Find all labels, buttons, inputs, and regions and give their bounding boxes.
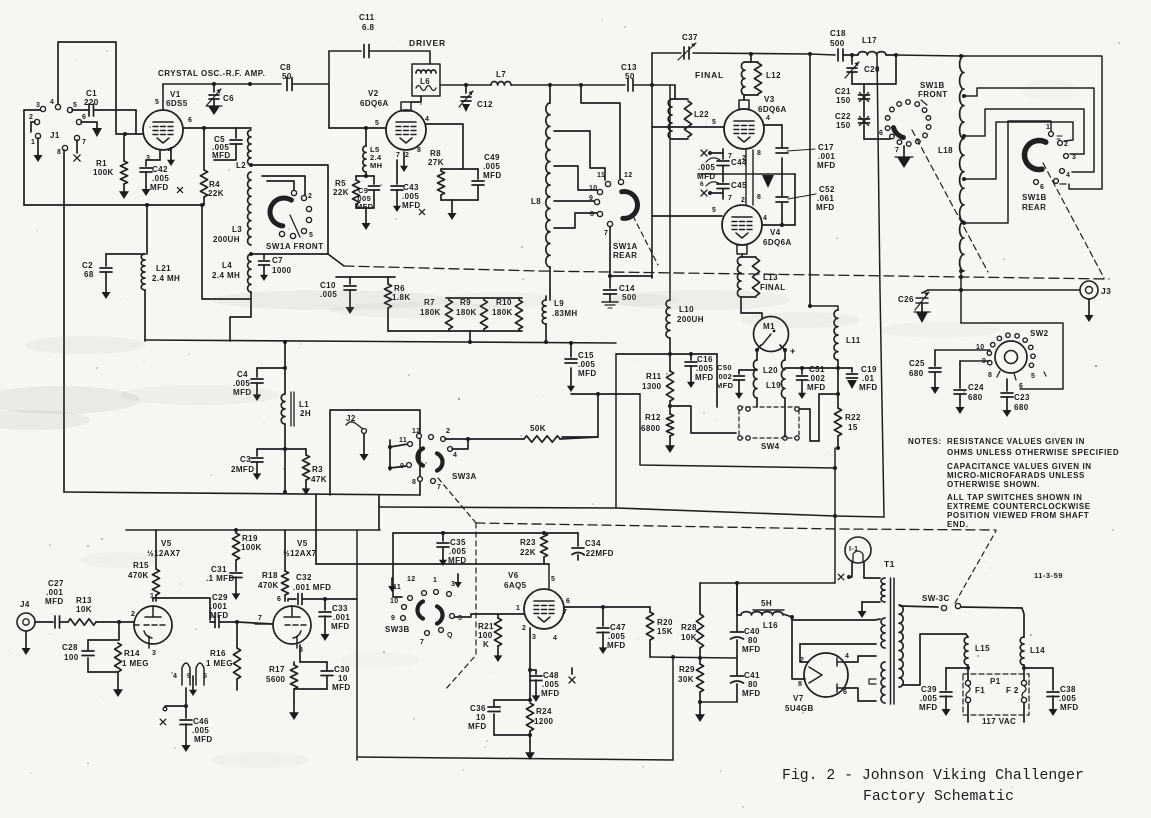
T1 HV winding bbox=[881, 662, 885, 703]
svg-text:R11: R11 bbox=[646, 372, 662, 381]
wire V1 cathode bbox=[159, 150, 161, 160]
resistor R28 bbox=[696, 583, 703, 658]
svg-text:11-3-59: 11-3-59 bbox=[1034, 571, 1063, 580]
capacitor C24 bbox=[954, 361, 966, 414]
tube V5b half 12AX7 bbox=[273, 606, 311, 648]
svg-text:680: 680 bbox=[1014, 403, 1029, 412]
label NOTES line7 bbox=[947, 502, 1091, 511]
node L18 tap1 bbox=[962, 94, 966, 98]
wire R11 tap to SW4 bbox=[670, 406, 736, 433]
label L16 bbox=[763, 621, 778, 630]
resistor R4 bbox=[200, 128, 207, 205]
label C44 .005MFD bbox=[697, 158, 747, 181]
wire L8 tap9 bbox=[554, 200, 594, 202]
wire x795 link bbox=[794, 174, 796, 225]
contact SW3B 9 bbox=[391, 615, 405, 622]
pin 2 V5a bbox=[131, 611, 135, 618]
pin 5 V6 bbox=[551, 576, 555, 583]
svg-text:V5: V5 bbox=[297, 539, 308, 548]
contact SW3A 2 bbox=[441, 428, 451, 441]
wire V2 screen lead bbox=[426, 124, 463, 169]
wire SW4 right link bbox=[799, 409, 819, 441]
node grid junction bbox=[123, 132, 127, 136]
inductor L6 coil bbox=[416, 70, 436, 91]
svg-text:I-1: I-1 bbox=[849, 546, 858, 553]
svg-text:C16: C16 bbox=[697, 355, 713, 364]
svg-text:MICRO-MICROFARADS UNLESS: MICRO-MICROFARADS UNLESS bbox=[947, 471, 1085, 480]
svg-text:5: 5 bbox=[712, 207, 716, 214]
svg-text:R21: R21 bbox=[478, 622, 494, 631]
label C40 80 MFD bbox=[742, 627, 761, 654]
label L4 2.4MH bbox=[212, 261, 240, 280]
svg-text:1200: 1200 bbox=[534, 717, 554, 726]
label T1 bbox=[884, 559, 895, 569]
caption line 2 bbox=[863, 789, 1014, 805]
svg-text:6800: 6800 bbox=[641, 424, 661, 433]
svg-text:C52: C52 bbox=[819, 185, 835, 194]
label L21 2.4MH bbox=[152, 264, 180, 283]
wire J1 pin8 down / left rail bbox=[63, 150, 65, 492]
svg-text:R23: R23 bbox=[520, 538, 536, 547]
svg-text:1 MEG: 1 MEG bbox=[122, 659, 149, 668]
svg-text:C26: C26 bbox=[898, 295, 914, 304]
svg-text:C33: C33 bbox=[332, 604, 348, 613]
inductor L3 bbox=[248, 172, 251, 245]
wire L17 to L18 bbox=[896, 55, 961, 56]
label C13 50 bbox=[621, 63, 637, 81]
svg-text:F 2: F 2 bbox=[1006, 686, 1019, 695]
wire C20 loop bbox=[852, 55, 896, 84]
svg-text:1: 1 bbox=[1046, 124, 1050, 131]
node C14 junction bbox=[608, 274, 612, 278]
svg-text:MFD: MFD bbox=[210, 611, 229, 620]
contact SW3A 9 bbox=[400, 463, 411, 470]
wire V6 output bbox=[565, 606, 650, 608]
wire left rail bottom bbox=[64, 492, 420, 495]
svg-text:.002: .002 bbox=[808, 374, 825, 383]
label SW4 bbox=[761, 442, 780, 451]
svg-text:V5: V5 bbox=[161, 539, 172, 548]
capacitor C44 bbox=[706, 149, 729, 166]
inductor L10 coil bbox=[666, 300, 670, 338]
svg-text:7: 7 bbox=[258, 615, 262, 622]
svg-text:C46: C46 bbox=[193, 717, 209, 726]
variable capacitor C6 bbox=[207, 84, 221, 106]
inductor L15 bbox=[964, 634, 968, 665]
wire L8 tap11 bbox=[554, 131, 605, 180]
capacitor C35 bbox=[437, 531, 449, 566]
label SW1B FRONT bbox=[918, 81, 948, 99]
tube V6 6AQ5 bbox=[524, 564, 564, 629]
svg-text:7: 7 bbox=[895, 147, 899, 154]
node C47 bbox=[601, 605, 605, 609]
ground C31 bbox=[232, 577, 241, 600]
svg-text:7: 7 bbox=[82, 139, 86, 146]
heater symbol pins 4 9 5 bbox=[182, 663, 204, 685]
svg-text:L11: L11 bbox=[846, 336, 861, 345]
wire long vertical x877 bbox=[877, 55, 884, 517]
resistor R22 bbox=[834, 408, 841, 436]
switch SW1B FRONT contacts bbox=[885, 100, 931, 147]
label L11 bbox=[846, 336, 861, 345]
label R11 1300 bbox=[642, 372, 662, 391]
contact SW1A-R 12 bbox=[618, 172, 632, 185]
caption line 1 bbox=[782, 768, 1084, 784]
svg-text:7: 7 bbox=[563, 609, 567, 616]
pin 1 V5a bbox=[150, 593, 154, 600]
lamp I-1 bbox=[845, 537, 871, 563]
node M1 minus bbox=[755, 345, 761, 352]
resistor R7 bbox=[445, 298, 452, 331]
node L18 tap4 bbox=[962, 221, 966, 225]
contact SW1B-R 5 bbox=[1054, 179, 1066, 184]
tube V7 5U4GB bbox=[804, 653, 848, 697]
wire C42 branch bbox=[146, 160, 160, 166]
pin 7 2 V2 bbox=[396, 152, 409, 159]
svg-text:R22: R22 bbox=[845, 413, 861, 422]
label C7 1000 bbox=[272, 256, 292, 275]
svg-text:15: 15 bbox=[848, 423, 858, 432]
wire L12 top bbox=[749, 52, 753, 62]
label C23 680 bbox=[1014, 393, 1030, 412]
wire grid bus x652 down bbox=[651, 85, 653, 277]
svg-text:J1: J1 bbox=[50, 131, 60, 140]
wire J1 bottom bus bbox=[24, 204, 204, 206]
capacitor C32 bbox=[298, 594, 357, 605]
node L18 tap3 bbox=[962, 177, 966, 181]
contact SW3B 5 bbox=[450, 614, 463, 622]
label R15 470K bbox=[128, 561, 149, 580]
node C12 bbox=[464, 83, 468, 87]
wire C28/R14 bracket bbox=[88, 622, 119, 672]
node L16 out bbox=[783, 614, 794, 619]
wire L19-L11 link bbox=[785, 366, 840, 370]
svg-text:C51: C51 bbox=[809, 365, 825, 374]
capacitor C30 bbox=[294, 671, 333, 689]
svg-text:.005: .005 bbox=[608, 632, 625, 641]
label L22 bbox=[694, 110, 709, 119]
svg-text:2.4 MH: 2.4 MH bbox=[212, 271, 240, 280]
svg-text:6: 6 bbox=[82, 114, 86, 121]
svg-text:L1: L1 bbox=[299, 400, 309, 409]
svg-text:C48: C48 bbox=[543, 671, 559, 680]
capacitor C19 bbox=[838, 368, 858, 389]
switch SW2 contacts bbox=[987, 333, 1035, 367]
svg-text:SW4: SW4 bbox=[761, 442, 780, 451]
svg-text:2: 2 bbox=[446, 428, 450, 435]
label L14 bbox=[1030, 646, 1045, 655]
resistor L12 res bbox=[745, 62, 762, 95]
svg-text:J2: J2 bbox=[346, 414, 356, 423]
svg-text:7: 7 bbox=[396, 152, 400, 159]
label R23 22K bbox=[520, 538, 536, 557]
svg-text:C24: C24 bbox=[968, 383, 984, 392]
pins 7 2 8 V3 bbox=[728, 150, 761, 162]
wire plate bracket bbox=[846, 656, 876, 701]
label R7 180K bbox=[420, 298, 441, 317]
capacitor C29 coupling bbox=[210, 617, 237, 628]
wire box right edge bbox=[356, 530, 358, 760]
svg-text:1 MEG: 1 MEG bbox=[206, 659, 233, 668]
svg-text:C11: C11 bbox=[359, 13, 375, 22]
wire M1 left drop bbox=[756, 350, 758, 360]
svg-text:2: 2 bbox=[522, 625, 526, 632]
node L9 bus bbox=[544, 340, 548, 344]
label L13 FINAL bbox=[760, 273, 786, 292]
svg-text:11: 11 bbox=[597, 172, 605, 179]
wire x675 to L22 bbox=[674, 85, 676, 99]
svg-text:C30: C30 bbox=[334, 665, 350, 674]
wire L10 bottom to R11 bbox=[669, 338, 671, 371]
wire tap path C bbox=[964, 109, 1084, 154]
node C16 bbox=[689, 352, 693, 356]
svg-text:MFD: MFD bbox=[807, 383, 826, 392]
label C49 .005 MFD bbox=[483, 153, 502, 180]
svg-text:4: 4 bbox=[845, 653, 849, 660]
label C42 .005 MFD bbox=[150, 165, 169, 192]
ground V2 cathode bbox=[400, 152, 408, 172]
wire V6 plate feed bbox=[316, 563, 549, 565]
svg-text:MFD: MFD bbox=[695, 373, 714, 382]
wire C37 rail bbox=[652, 52, 681, 54]
svg-text:F1: F1 bbox=[975, 686, 985, 695]
switch SW1A REAR rotor bbox=[622, 192, 638, 219]
svg-text:8: 8 bbox=[57, 149, 61, 156]
svg-text:MFD: MFD bbox=[742, 645, 761, 654]
arrow SW3B left bbox=[388, 578, 396, 592]
svg-text:C39: C39 bbox=[921, 685, 937, 694]
pin 4 V3 bbox=[766, 115, 770, 122]
svg-text:+: + bbox=[790, 346, 796, 356]
resistor R5 bbox=[352, 176, 374, 208]
svg-text:8: 8 bbox=[798, 681, 802, 688]
resistor R19 bbox=[232, 528, 239, 571]
svg-text:470K: 470K bbox=[258, 581, 279, 590]
contact SW3A 12 bbox=[412, 428, 421, 438]
wire riser x652 up bbox=[651, 53, 653, 85]
ground R14 bbox=[113, 672, 123, 697]
capacitor C9 bbox=[369, 176, 380, 208]
svg-text:200UH: 200UH bbox=[213, 235, 240, 244]
label C34 .22MFD bbox=[583, 539, 614, 558]
label 9 SW2 bbox=[982, 358, 986, 365]
capacitor C2 bbox=[100, 254, 112, 299]
contact SW1A-F top bbox=[291, 190, 296, 195]
wire x393 SW3B bbox=[393, 533, 402, 597]
capacitor C1 bbox=[72, 104, 136, 116]
node L18 top bbox=[959, 54, 963, 58]
svg-text:L12: L12 bbox=[766, 71, 781, 80]
label C43 .005 MFD bbox=[402, 183, 421, 210]
label V5a bbox=[147, 539, 181, 558]
svg-text:10K: 10K bbox=[681, 633, 697, 642]
contact 7 SW1B-F bbox=[895, 146, 904, 157]
svg-text:5: 5 bbox=[73, 102, 77, 109]
svg-text:C36: C36 bbox=[470, 704, 486, 713]
node J1 pin 6 bbox=[76, 114, 86, 125]
label SW1B REAR bbox=[1022, 193, 1047, 212]
svg-text:680: 680 bbox=[909, 369, 924, 378]
wire 50K riser bbox=[562, 394, 598, 437]
node J1 pin 3 bbox=[36, 102, 46, 112]
jack J3 bbox=[1080, 281, 1098, 299]
resistor L13 res bbox=[741, 257, 760, 297]
svg-text:1000: 1000 bbox=[272, 266, 292, 275]
svg-text:CAPACITANCE VALUES GIVEN IN: CAPACITANCE VALUES GIVEN IN bbox=[947, 462, 1092, 471]
svg-text:12: 12 bbox=[412, 428, 421, 435]
svg-text:SW1B: SW1B bbox=[1022, 193, 1047, 202]
svg-text:MFD: MFD bbox=[356, 202, 374, 211]
label R20 15K bbox=[657, 618, 673, 636]
svg-text:C4: C4 bbox=[237, 370, 248, 379]
contact SW1A-F mid2 bbox=[306, 217, 311, 222]
plate cap V2 bbox=[401, 96, 421, 111]
svg-text:L22: L22 bbox=[694, 110, 709, 119]
capacitor C31 bbox=[230, 573, 242, 578]
svg-text:L17: L17 bbox=[862, 36, 877, 45]
contact SW1B-R 6 bbox=[1034, 180, 1045, 191]
x-mark C42 bbox=[177, 187, 182, 192]
switch SW3B rotor bbox=[418, 601, 443, 623]
svg-text:27K: 27K bbox=[428, 158, 444, 167]
ground C4 bbox=[253, 383, 262, 401]
wire C1 to grid node bbox=[135, 110, 137, 134]
svg-text:L6: L6 bbox=[420, 77, 430, 86]
svg-text:2: 2 bbox=[1064, 141, 1068, 148]
svg-text:C40: C40 bbox=[744, 627, 760, 636]
pin 1 V6 bbox=[516, 605, 520, 612]
svg-text:Factory Schematic: Factory Schematic bbox=[863, 789, 1014, 805]
x-mark C43 bbox=[419, 209, 424, 214]
label C52 .061 MFD leader bbox=[788, 185, 835, 212]
plug P1 dashed box bbox=[963, 674, 1029, 715]
node R28 R29 bbox=[698, 656, 702, 660]
svg-text:47K: 47K bbox=[311, 475, 327, 484]
contact SW3B 12 bbox=[407, 576, 426, 595]
svg-text:FINAL: FINAL bbox=[695, 70, 724, 80]
wire tap path B bbox=[964, 88, 1094, 172]
label date 11-3-59 bbox=[1034, 571, 1063, 580]
contact SW4 e bbox=[795, 436, 799, 440]
x-mark C48 bbox=[569, 668, 575, 683]
wire contact7 down bbox=[609, 227, 611, 276]
tube V1 6DS5 bbox=[143, 84, 183, 150]
capacitor C13 bbox=[628, 79, 633, 91]
label L20 bbox=[763, 366, 778, 375]
wire L19 through SW4 bbox=[784, 398, 786, 437]
resistor R14 bbox=[115, 643, 122, 672]
inductor L11 bbox=[834, 310, 838, 360]
inductor L8 bbox=[546, 85, 550, 300]
jack J2 symbol bbox=[346, 422, 366, 434]
svg-text:MFD: MFD bbox=[468, 722, 487, 731]
svg-text:6DQ6A: 6DQ6A bbox=[758, 105, 787, 114]
capacitor C8 bbox=[287, 78, 292, 91]
contact SW3B x2 bbox=[433, 577, 438, 594]
label R22 15 bbox=[845, 413, 861, 432]
svg-text:MFD: MFD bbox=[194, 735, 213, 744]
label C14 500 bbox=[619, 284, 637, 302]
capacitor C50 bbox=[734, 370, 758, 399]
T1 primary top winding bbox=[881, 578, 885, 602]
switch SW4 box bbox=[739, 407, 799, 438]
contact SW1A-F mid1 bbox=[306, 206, 311, 211]
svg-text:J4: J4 bbox=[20, 600, 30, 609]
dashed bus lower bbox=[476, 523, 996, 530]
jack J4 bbox=[17, 613, 35, 631]
inductor L20 bbox=[753, 360, 757, 398]
contact SW2 lead 8 bbox=[997, 371, 1000, 377]
contact SW1A-R 8 bbox=[590, 211, 603, 218]
svg-text:C17: C17 bbox=[818, 143, 834, 152]
label V7 5U4GB bbox=[785, 694, 814, 713]
capacitor C45 bbox=[706, 166, 729, 189]
svg-text:7: 7 bbox=[604, 230, 608, 237]
svg-text:½12AX7: ½12AX7 bbox=[283, 549, 317, 558]
contact SW1A-F b1 bbox=[279, 231, 284, 236]
dashed bus upper bbox=[344, 266, 1109, 279]
svg-text:MFD: MFD bbox=[817, 161, 836, 170]
node screen junction bbox=[202, 126, 206, 130]
svg-text:MFD: MFD bbox=[45, 597, 64, 606]
inductor L9 bbox=[542, 296, 546, 342]
pin 6 V6 bbox=[566, 598, 570, 605]
label L8 bbox=[531, 197, 541, 206]
wire C22 to rotor bbox=[864, 138, 890, 140]
wire y354 bracket bbox=[616, 354, 717, 508]
wire lamp leads bbox=[852, 562, 864, 578]
ground SW1B FRONT bbox=[895, 157, 913, 168]
label R10 180K bbox=[492, 298, 513, 317]
svg-text:FRONT: FRONT bbox=[918, 90, 948, 99]
svg-text:8: 8 bbox=[590, 211, 594, 218]
node SW3A l1 bbox=[388, 445, 392, 470]
label SW3A bbox=[452, 472, 477, 481]
capacitor C34 bbox=[572, 533, 584, 560]
svg-text:5H: 5H bbox=[761, 599, 772, 608]
ground J3 bbox=[1085, 299, 1094, 322]
dashed gang SW1B FRONT bbox=[912, 130, 988, 272]
contact SW3B Q bbox=[439, 628, 453, 639]
pin 7 V6 bbox=[563, 609, 567, 616]
label V4 6DQ6A bbox=[763, 228, 792, 247]
wire SW2 c9 bbox=[960, 360, 989, 362]
wire L20 to SW4 bbox=[756, 398, 758, 407]
capacitor C36 bbox=[488, 707, 500, 712]
contact SW4 d bbox=[783, 436, 787, 440]
wire C15 junction net bbox=[571, 392, 600, 396]
node C48 tap bbox=[528, 668, 532, 672]
inductor L21 bbox=[141, 254, 145, 290]
wire L4 bottom jog bbox=[230, 292, 251, 341]
label C48 .005 MFD bbox=[541, 671, 560, 698]
capacitor C27 bbox=[35, 616, 68, 628]
label NOTES line5 bbox=[947, 480, 1040, 489]
wire mid bus y341 bbox=[145, 340, 616, 343]
svg-text:.005: .005 bbox=[698, 163, 715, 172]
svg-text:6AQ5: 6AQ5 bbox=[504, 581, 527, 590]
contact SW1B-R 4 bbox=[1060, 169, 1071, 179]
contact SW3B 11 bbox=[393, 584, 412, 600]
node J1 pin 4 bbox=[50, 99, 61, 110]
svg-text:2: 2 bbox=[800, 657, 804, 664]
wire 5V top to L16 bbox=[792, 617, 880, 620]
ground C14 bbox=[602, 302, 618, 308]
svg-text:150: 150 bbox=[836, 96, 851, 105]
node L18 bottom bbox=[959, 269, 963, 273]
svg-text:C31: C31 bbox=[211, 565, 227, 574]
svg-text:9: 9 bbox=[589, 195, 593, 202]
